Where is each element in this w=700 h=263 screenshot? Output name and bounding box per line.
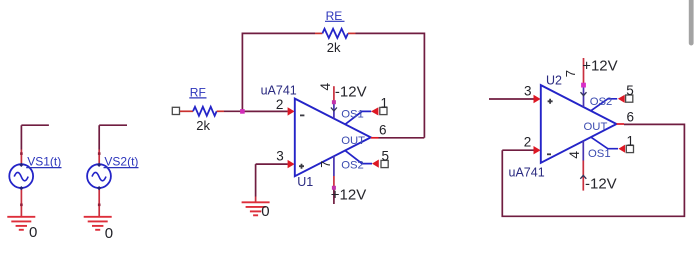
svg-text:uA741: uA741 [509, 166, 545, 180]
svg-text:2k: 2k [327, 40, 341, 55]
svg-text:0: 0 [29, 224, 37, 241]
svg-text:2: 2 [524, 135, 532, 150]
svg-text:OS1: OS1 [341, 108, 364, 120]
svg-text:OS1: OS1 [588, 148, 611, 160]
svg-text:7: 7 [563, 70, 578, 77]
svg-text:U2: U2 [546, 74, 562, 88]
svg-text:OUT: OUT [341, 135, 365, 147]
svg-text:6: 6 [379, 122, 387, 137]
svg-text:2k: 2k [196, 118, 210, 133]
svg-text:-12V: -12V [585, 176, 617, 193]
svg-text:uA741: uA741 [261, 84, 297, 98]
svg-text:6: 6 [627, 109, 635, 124]
svg-text:+12V: +12V [331, 187, 366, 204]
svg-text:5: 5 [382, 149, 390, 164]
svg-text:3: 3 [524, 84, 532, 99]
svg-text:7: 7 [319, 161, 333, 168]
svg-text:4: 4 [317, 83, 333, 91]
svg-text:VS1(t): VS1(t) [27, 154, 61, 168]
svg-text:-12V: -12V [335, 83, 367, 100]
svg-text:VS2(t): VS2(t) [104, 154, 138, 168]
svg-text:0: 0 [105, 225, 113, 242]
svg-text:U1: U1 [297, 175, 313, 189]
svg-text:3: 3 [276, 148, 284, 163]
svg-text:1: 1 [380, 95, 388, 110]
svg-text:OS2: OS2 [590, 96, 613, 108]
svg-text:OUT: OUT [584, 121, 608, 133]
svg-text:0: 0 [261, 203, 269, 220]
svg-text:4: 4 [566, 151, 582, 159]
svg-text:5: 5 [626, 83, 634, 98]
svg-text:+12V: +12V [582, 57, 617, 74]
svg-text:2: 2 [276, 97, 284, 112]
svg-text:1: 1 [626, 133, 634, 148]
svg-text:OS2: OS2 [341, 159, 364, 171]
